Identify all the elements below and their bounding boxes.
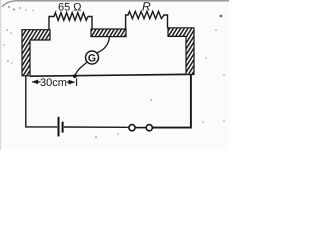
junction dot (jockey contact): [73, 74, 77, 78]
battery: short plate: [62, 122, 64, 133]
dimension end tick: [76, 78, 78, 86]
wire: middle strip to galvanometer: [97, 37, 109, 53]
right copper strip (hatched L): [168, 28, 194, 75]
key plug: right terminal circle: [146, 125, 152, 131]
wire: battery to key: [64, 126, 129, 128]
wire: key to right strip: [153, 75, 191, 128]
left copper strip (hatched L): [22, 30, 50, 76]
svg-text:R: R: [142, 0, 151, 14]
resistor 65 ohm (zigzag with leads): [49, 13, 92, 30]
scan noise speckles: [3, 6, 225, 138]
battery: long plate: [58, 117, 60, 137]
key plug: left terminal circle: [129, 125, 135, 131]
left circuit wire (strip down to battery): [26, 76, 57, 127]
middle copper strip (hatched): [91, 29, 126, 37]
resistor R (zigzag with leads): [126, 11, 168, 29]
dimension 30cm: right arrow: [67, 80, 75, 85]
key plug: gap wire: [135, 127, 146, 129]
galvanometer G: [86, 51, 99, 64]
page left edge shade: [0, 0, 1, 150]
wire: galvanometer to jockey point: [75, 62, 88, 76]
svg-text:G: G: [88, 53, 96, 65]
dimension 30cm: left arrow: [32, 80, 41, 85]
bridge wire: [30, 74, 186, 76]
page top edge line: [2, 1, 229, 7]
svg-text:30cm: 30cm: [40, 77, 67, 89]
svg-text:65 Ω: 65 Ω: [58, 2, 82, 14]
